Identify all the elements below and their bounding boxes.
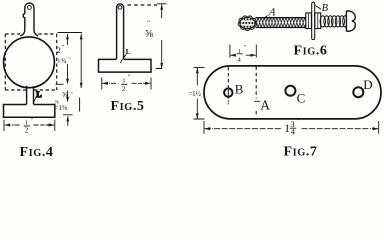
svg-text:=1½: =1½ bbox=[188, 90, 201, 98]
fig4 bottom dim ticks bbox=[4, 120, 55, 132]
fig6 right nut bbox=[315, 13, 321, 29]
fig7 bottom dim ticks bbox=[204, 121, 379, 134]
svg-text:A: A bbox=[260, 98, 270, 113]
fig4 dashed square bottom bbox=[5, 89, 56, 91]
fig6 knurled thumb nut bbox=[238, 16, 256, 31]
fig6 label B leader bbox=[315, 6, 321, 10]
fig4 bottom dim arrows bbox=[4, 123, 54, 126]
fig4 inner dim tick bbox=[56, 83, 64, 85]
fig7 hole B centerline bbox=[227, 67, 229, 88]
svg-text:″: ″ bbox=[31, 117, 34, 125]
fig5 label L leader bbox=[123, 54, 126, 58]
fig6 rod threaded left section bbox=[256, 18, 306, 28]
fig4 bottom small arrow bbox=[67, 116, 69, 126]
fig4 label 5/8 bbox=[62, 91, 73, 100]
svg-text:FIG.7: FIG.7 bbox=[284, 145, 318, 159]
fig4 inner dim line bbox=[67, 34, 69, 84]
fig4 dashed square right bbox=[56, 34, 58, 90]
fig4 right top tick bbox=[58, 32, 83, 34]
fig7 plate outline bbox=[204, 66, 381, 119]
fig7 left dim ticks bbox=[194, 67, 205, 119]
fig6 rod threaded right section coils bbox=[320, 16, 348, 27]
fig4 label 2 inch bbox=[57, 45, 65, 55]
svg-text:FIG.6: FIG.6 bbox=[294, 44, 328, 59]
svg-text:″: ″ bbox=[297, 117, 300, 126]
svg-text:FIG.5: FIG.5 bbox=[111, 99, 145, 114]
fig7 left dim line bbox=[196, 68, 198, 119]
fig5 caption bbox=[111, 99, 145, 114]
svg-text:2: 2 bbox=[25, 127, 29, 135]
fig5 right dim line bbox=[156, 4, 162, 68]
fig4 stem outline bbox=[20, 3, 38, 36]
fig4 neck bbox=[27, 86, 34, 105]
fig5 post hole bbox=[118, 6, 122, 10]
svg-text:2: 2 bbox=[57, 45, 61, 55]
fig7 line A tick bbox=[254, 100, 260, 102]
fig4 base block bbox=[4, 105, 55, 118]
fig6 label A leader bbox=[263, 16, 267, 19]
fig4 small label 7/8 bbox=[55, 100, 59, 106]
fig4 bottom dim line bbox=[5, 124, 54, 126]
fig4 ball circle bbox=[4, 37, 55, 88]
fig6 left nut bbox=[306, 13, 312, 29]
svg-text:¾: ¾ bbox=[61, 56, 67, 65]
fig4 stem hole bbox=[28, 6, 32, 10]
fig7 quarter dim line bbox=[230, 54, 255, 56]
fig5 joint mark bbox=[120, 59, 122, 64]
fig6 knob bbox=[346, 11, 355, 31]
svg-text:⅝: ⅝ bbox=[145, 29, 153, 40]
fig5 right dim label 5/8 bbox=[145, 19, 153, 40]
fig7 quarter dim text bbox=[238, 44, 247, 64]
fig7 hole D bbox=[353, 87, 363, 97]
fig7 left dim label bbox=[188, 90, 201, 98]
fig5 bottom dim arrows bbox=[102, 82, 151, 85]
fig7 line A dashed bbox=[255, 67, 257, 117]
fig7 quarter dim ticks bbox=[230, 45, 256, 58]
svg-text:″: ″ bbox=[71, 92, 73, 98]
fig5 right dim tick bbox=[157, 3, 167, 5]
fig4 outer dim line bbox=[80, 34, 82, 112]
fig4 label 1/8 bbox=[55, 104, 68, 112]
fig6 caption bbox=[294, 44, 328, 59]
fig4 bottom dim text half inch bbox=[25, 117, 34, 135]
svg-text:1: 1 bbox=[284, 123, 290, 135]
svg-text:C: C bbox=[297, 90, 306, 105]
fig4 joint leader bbox=[33, 97, 36, 104]
svg-text:″: ″ bbox=[147, 19, 150, 28]
fig7 hole B bbox=[224, 88, 232, 96]
svg-text:L: L bbox=[36, 90, 41, 99]
svg-text:2: 2 bbox=[122, 85, 126, 93]
fig7 caption bbox=[284, 145, 318, 160]
svg-text:D: D bbox=[363, 77, 372, 92]
svg-text:1: 1 bbox=[25, 120, 28, 127]
fig4 base tick bbox=[63, 114, 73, 116]
fig5 post bbox=[117, 4, 124, 59]
svg-text:B: B bbox=[322, 3, 329, 14]
svg-text:″: ″ bbox=[69, 57, 71, 63]
fig7 bottom dim arrows bbox=[204, 127, 378, 130]
fig4 caption bbox=[20, 145, 54, 160]
fig7 hole C bbox=[285, 86, 295, 96]
fig5 top dashed line bbox=[128, 4, 158, 6]
svg-text:″: ″ bbox=[128, 74, 131, 82]
svg-text:″: ″ bbox=[244, 44, 247, 51]
svg-text:=1⅛: =1⅛ bbox=[55, 104, 68, 112]
fig4 dashed square left bbox=[4, 34, 6, 90]
fig6 flat bar B bbox=[312, 2, 315, 39]
fig7 bottom dim text bbox=[284, 117, 300, 137]
fig7 quarter dim arrows bbox=[230, 54, 256, 57]
fig5 base block bbox=[99, 59, 152, 72]
fig4 dashed square top bbox=[5, 33, 56, 35]
fig5 bottom dim text half inch bbox=[122, 74, 131, 94]
fig4 mid dim arrow bbox=[67, 91, 69, 102]
fig7 bottom dim line bbox=[205, 128, 379, 130]
svg-text:1: 1 bbox=[122, 78, 125, 85]
fig5 bottom dim line bbox=[102, 82, 150, 84]
svg-text:L: L bbox=[126, 47, 131, 56]
fig5 bottom dim ticks bbox=[102, 78, 151, 90]
fig4 label 1 3/4 bbox=[57, 56, 70, 65]
svg-text:B: B bbox=[235, 82, 244, 97]
